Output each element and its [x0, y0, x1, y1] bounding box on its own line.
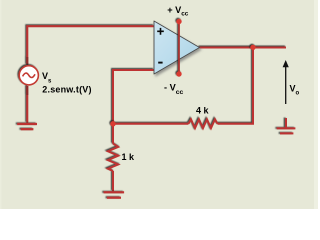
wire source bottom stub (dark) — [26, 86, 28, 95]
svg-text:1 k: 1 k — [122, 152, 136, 162]
ground (output) — [277, 118, 296, 133]
wire - input to node A — [113, 70, 154, 144]
output node dot — [250, 45, 255, 50]
wire 1k to ground — [112, 171, 114, 191]
wire output — [200, 47, 287, 49]
op-amp + pin label — [157, 28, 164, 35]
op-amp U1 — [154, 21, 200, 74]
svg-text:2.senw.t(V): 2.senw.t(V) — [42, 85, 91, 95]
source Vs — [19, 66, 38, 85]
resistor R2 4k — [189, 119, 218, 128]
arrow Vo — [283, 60, 289, 104]
wire feedback right — [218, 48, 254, 124]
ground (1k) — [104, 192, 125, 197]
-Vcc dot — [176, 71, 181, 76]
node A dot — [110, 121, 115, 126]
wire feedback left — [113, 123, 189, 125]
ground (source) — [17, 124, 37, 129]
Vcc rail — [176, 19, 181, 77]
wire top: source to + input — [27, 26, 154, 64]
wire source bottom to ground — [26, 86, 28, 123]
svg-text:4 k: 4 k — [196, 105, 210, 115]
wire source top stub (dark) — [26, 57, 28, 65]
op-amp - pin label — [158, 62, 162, 64]
+Vcc dot — [176, 19, 181, 24]
resistor R1 1k — [108, 144, 118, 172]
